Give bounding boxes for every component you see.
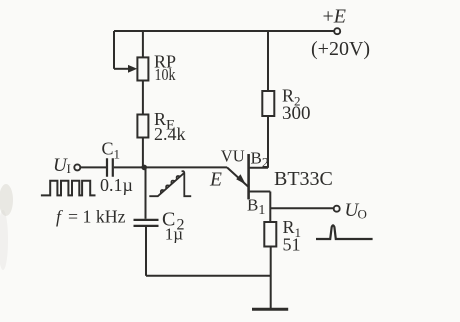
wire pot feedback left vertical — [113, 31, 115, 69]
UJT emitter arrowhead — [236, 174, 246, 184]
waveform emitter sawtooth baseline and ramp — [149, 173, 184, 196]
waveform input square wave — [41, 181, 96, 196]
wire pot wiper horizontal — [114, 68, 129, 70]
svg-text:BT33C: BT33C — [274, 168, 333, 190]
terminal circle input UI — [74, 164, 80, 170]
svg-text:= 1 kHz: = 1 kHz — [68, 207, 126, 227]
wire B1 lead horizontal — [249, 191, 271, 193]
terminal circle output UO — [334, 206, 340, 212]
capacitor C1 plates — [107, 158, 113, 176]
wire bottom rail — [146, 275, 271, 277]
wire C1 to emitter node — [114, 166, 144, 168]
svg-text:1µ: 1µ — [165, 225, 184, 244]
svg-text:VU: VU — [221, 147, 245, 166]
waveform output pulse — [316, 225, 373, 239]
wire B2 lead horizontal — [249, 167, 268, 169]
wire output from B1 node — [270, 207, 333, 209]
wire B1 down to R1 — [269, 192, 271, 223]
resistor RP (potentiometer body) — [137, 57, 148, 80]
ground bar — [252, 308, 288, 311]
wire top rail to RP — [142, 31, 144, 57]
wire top rail down to R2 — [267, 31, 269, 91]
svg-text:E: E — [209, 170, 222, 191]
waveform sawtooth peak drop and tail — [182, 171, 192, 196]
wire UJT emitter diagonal lead — [227, 167, 248, 186]
resistor R2 — [262, 91, 274, 116]
waveform sawtooth scallop bumps — [161, 176, 180, 193]
wire input terminal to C1 — [81, 166, 107, 168]
pot wiper arrowhead — [128, 65, 137, 73]
wire RP to RE — [142, 81, 144, 115]
svg-text:10k: 10k — [155, 65, 176, 84]
svg-text:0.1µ: 0.1µ — [100, 175, 133, 195]
svg-text:300: 300 — [282, 103, 311, 124]
wire C2 bottom plate to bottom rail — [145, 227, 147, 276]
wire emitter node to C2 top plate — [145, 167, 147, 218]
svg-text:51: 51 — [283, 235, 301, 255]
resistor R1 — [264, 222, 276, 247]
capacitor C2 plates — [134, 220, 159, 226]
resistor RE — [137, 115, 148, 138]
svg-text:(+20V): (+20V) — [311, 38, 370, 60]
wire R1 to ground stem — [270, 247, 272, 309]
wire emitter node to UJT emitter — [144, 166, 227, 168]
svg-text:2.4k: 2.4k — [154, 124, 186, 144]
svg-text:I: I — [67, 161, 71, 176]
transistor VU base bar (UJT BT33C) — [247, 154, 250, 199]
wire R2 to B2 — [267, 116, 269, 168]
wire top rail — [114, 30, 334, 32]
svg-text:+E: +E — [323, 6, 347, 28]
terminal circle +E — [334, 28, 340, 34]
wire RE to emitter node — [142, 138, 144, 168]
node emitter junction dot — [141, 165, 147, 171]
svg-text:O: O — [358, 207, 367, 222]
